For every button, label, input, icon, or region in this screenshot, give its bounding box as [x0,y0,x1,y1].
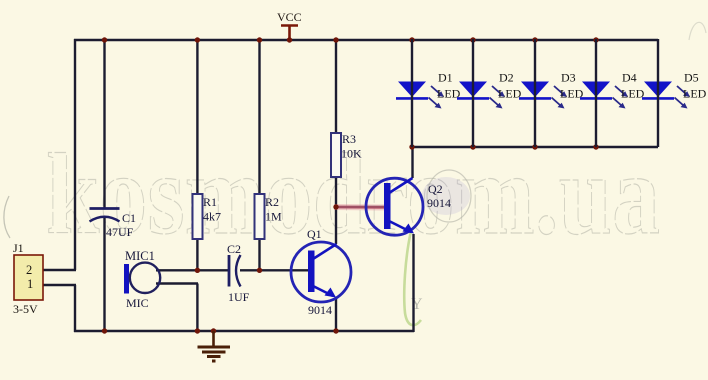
svg-text:9014: 9014 [308,303,332,317]
capacitor C2 [227,242,250,304]
watermark purple blob over Q2 labels [422,177,470,215]
svg-text:R1: R1 [203,195,217,209]
wire J1 pin2 [43,269,76,271]
connector J1 [13,241,43,316]
VCC power symbol [277,10,302,40]
LED D3 [519,39,584,147]
LED D5 [642,39,707,147]
wire mic lower vertical to ground rail [196,284,198,332]
svg-text:R3: R3 [342,132,356,146]
svg-text:R2: R2 [265,195,279,209]
resistor R2 [255,194,283,239]
junction dots LED bottom rail [409,144,414,149]
wire C2 to Q1 base [240,269,309,271]
wire C1 bottom vertical [103,218,105,331]
svg-text:VCC: VCC [277,10,302,24]
svg-text:Q2: Q2 [428,182,443,196]
svg-text:MIC: MIC [126,296,149,310]
watermark gray o outline around Q2 labels [427,170,471,222]
wire C1 top vertical [103,39,105,209]
wire R1 top vertical [196,39,198,195]
wire R3 bottom vertical to Q1 collector [335,176,337,244]
LED D1 [396,39,461,147]
ground symbol [198,331,231,361]
wire Q2 base [336,206,384,208]
resistor R1 [193,194,222,239]
svg-text:LED: LED [621,87,645,101]
junction dots signal node at R1 bottom [195,268,200,273]
transistor Q1 [291,227,351,317]
junction dot R3 to Q2 base node [333,204,338,209]
capacitor C1 [90,209,137,240]
svg-text:10K: 10K [341,147,362,161]
svg-text:C1: C1 [122,211,136,225]
watermark top-right curl [689,22,706,40]
junction dots bottom rail [102,328,107,333]
junction dots on top rail [102,37,107,42]
watermark pink stroke on Q2 base wire [334,204,388,211]
svg-text:1M: 1M [265,210,282,224]
svg-text:LED: LED [683,87,707,101]
svg-text:1UF: 1UF [228,290,250,304]
svg-text:47UF: 47UF [106,225,134,239]
wire bottom rail [74,330,414,332]
wire left-bottom vertical (J1 pin1 to ground rail) [74,285,76,332]
wire R3 top vertical [335,39,337,133]
transistor Q2 [366,178,451,235]
LED D2 [457,39,522,147]
watermark kosmodrom.ua [46,131,660,259]
wire J1 pin1 [43,284,76,286]
wire R2 top vertical [258,39,260,195]
svg-text:4k7: 4k7 [203,210,221,224]
svg-text:D1: D1 [438,71,453,85]
wire R1 bottom vertical [196,238,198,271]
svg-text:3-5V: 3-5V [13,302,38,316]
wire Q1 emitter vertical [335,297,337,331]
svg-text:2: 2 [26,263,32,277]
wire Q2 collector vertical to LED rail [411,147,413,178]
svg-text:1: 1 [27,277,33,291]
svg-text:Q1: Q1 [307,227,322,241]
wire top rail [74,39,658,41]
svg-text:MIC1: MIC1 [125,249,155,263]
LED D4 [580,39,645,147]
svg-text:D4: D4 [622,71,637,85]
svg-text:9014: 9014 [427,196,451,210]
wire R2 bottom vertical [258,238,260,271]
watermark green squiggle [404,231,421,325]
svg-text:D3: D3 [561,71,576,85]
junction dot at R2 bottom / Q1 base [257,268,262,273]
svg-text:C2: C2 [227,242,241,256]
wire mic lower lead [156,282,198,284]
svg-text:J1: J1 [13,241,24,255]
wire Q2 emitter vertical to ground rail [412,234,414,332]
watermark left edge arc [4,196,10,238]
svg-text:D2: D2 [499,71,514,85]
resistor R3 [331,132,362,177]
wire mic output to C2 [156,269,229,271]
wire left vertical (VCC to J1 pin2) [74,39,76,270]
microphone MIC1 [124,249,160,310]
svg-text:LED: LED [498,87,522,101]
svg-text:D5: D5 [684,71,699,85]
wire LED bottom rail [412,146,658,148]
